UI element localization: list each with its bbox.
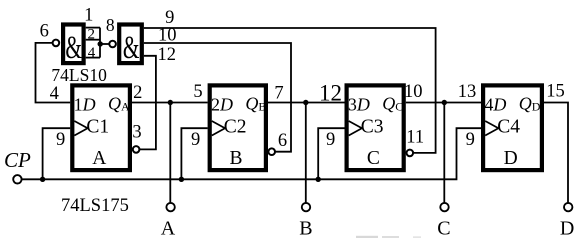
svg-text:9: 9	[56, 130, 65, 150]
wire terminal A drop	[169, 103, 171, 203]
svg-text:D: D	[532, 99, 541, 113]
wire G1 output (pin 6) to 1D input	[36, 43, 71, 103]
wire G2 output to G1 inputs	[100, 43, 109, 45]
D flip-flop B (74LS175 section 2)	[210, 85, 267, 170]
svg-text:&: &	[65, 30, 82, 66]
wire QD to terminal D	[544, 103, 568, 203]
svg-text:13: 13	[458, 82, 477, 102]
wire QA to 2D	[132, 102, 208, 104]
wire G1 input stub pin 2	[86, 39, 100, 41]
svg-text:C1: C1	[86, 117, 109, 138]
FF B inverted output bubble (pin 6)	[268, 148, 275, 155]
svg-text:6: 6	[278, 131, 287, 151]
wire G1 input stub pin 4	[86, 57, 100, 59]
svg-text:C2: C2	[224, 117, 247, 138]
svg-text:A: A	[92, 148, 106, 169]
svg-text:CP: CP	[4, 148, 31, 172]
svg-text:C: C	[437, 217, 450, 238]
wire G1 input tie bus	[99, 28, 101, 58]
wire G2 pin 9 to QC-bar riser	[144, 28, 436, 153]
wire G1 input stub pin 1	[86, 27, 100, 29]
svg-text:9: 9	[326, 130, 335, 150]
terminal B (output node B)	[302, 203, 310, 211]
svg-text:Q: Q	[245, 94, 258, 114]
svg-text:4D: 4D	[484, 95, 506, 115]
svg-text:B: B	[258, 99, 266, 113]
FF A inverted output bubble (pin 3)	[133, 146, 140, 153]
svg-text:2D: 2D	[211, 95, 233, 115]
svg-text:B: B	[229, 148, 242, 169]
svg-text:A: A	[121, 99, 130, 113]
wire terminal C drop	[443, 103, 445, 203]
svg-text:74LS175: 74LS175	[61, 196, 129, 216]
svg-text:11: 11	[406, 128, 424, 148]
wire FF C clock stub	[318, 128, 344, 179]
node QA to terminal A junction	[168, 100, 173, 105]
faint cropped caption remnant	[356, 236, 421, 238]
wire FF B clock stub	[181, 128, 207, 179]
svg-text:3: 3	[132, 123, 141, 143]
svg-text:8: 8	[106, 15, 115, 35]
svg-text:15: 15	[546, 82, 565, 102]
node FF A clock junction	[40, 177, 45, 182]
svg-text:9: 9	[466, 130, 475, 150]
wire CP bus	[22, 128, 481, 179]
node FF C clock junction	[316, 177, 321, 182]
NAND gate G1 (74LS10) body	[63, 25, 84, 67]
svg-text:Q: Q	[519, 94, 532, 114]
terminal C (output node C)	[440, 203, 448, 211]
svg-text:C4: C4	[497, 117, 520, 138]
node QB to terminal B junction	[303, 100, 308, 105]
node QC to terminal C junction	[442, 100, 447, 105]
svg-text:C: C	[367, 148, 380, 169]
svg-text:12: 12	[158, 45, 177, 65]
svg-text:5: 5	[193, 82, 202, 102]
wire QC to 4D	[406, 102, 481, 104]
D flip-flop D (74LS175 section 4)	[483, 85, 542, 170]
svg-text:9: 9	[191, 130, 200, 150]
svg-text:Q: Q	[382, 94, 395, 114]
gate G2 output bubble (pin 8)	[109, 41, 116, 48]
svg-text:C3: C3	[361, 117, 384, 138]
terminal A (output node A)	[166, 203, 174, 211]
svg-text:D: D	[504, 148, 518, 169]
D flip-flop A (74LS175 section 1)	[72, 85, 130, 170]
svg-text:6: 6	[40, 22, 49, 42]
node FF B clock junction	[179, 177, 184, 182]
svg-text:1: 1	[84, 5, 93, 25]
wire G2 pin 12 to QA-bar riser	[140, 56, 156, 150]
svg-text:4: 4	[50, 84, 59, 104]
svg-text:A: A	[161, 217, 176, 238]
wire G2 pin 10 to QB-bar riser	[144, 43, 291, 152]
svg-text:&: &	[123, 30, 140, 66]
gate G1 output bubble (pin 6)	[53, 40, 60, 47]
terminal D (output node D)	[564, 203, 572, 211]
svg-text:7: 7	[274, 84, 283, 104]
svg-text:2: 2	[133, 83, 142, 103]
wire terminal B drop	[305, 103, 307, 203]
svg-text:B: B	[299, 217, 312, 238]
svg-text:D: D	[560, 217, 574, 238]
NAND gate G2 (74LS10) body	[119, 25, 142, 67]
svg-text:1D: 1D	[74, 95, 96, 115]
svg-text:3D: 3D	[348, 95, 370, 115]
svg-text:10: 10	[404, 82, 423, 102]
D flip-flop C (74LS175 section 3)	[347, 85, 404, 170]
svg-text:74LS10: 74LS10	[51, 65, 107, 85]
CP input terminal	[13, 175, 21, 183]
wire FF A clock stub	[43, 128, 71, 179]
FF C inverted output bubble (pin 11)	[407, 150, 414, 157]
wire QB to 3D	[268, 102, 345, 104]
node G1 inputs junction	[98, 41, 103, 46]
svg-text:Q: Q	[108, 94, 121, 114]
svg-text:C: C	[395, 99, 403, 113]
